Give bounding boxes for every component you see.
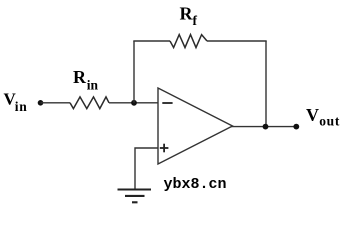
wire input lead	[41, 102, 71, 104]
node output junction	[263, 124, 269, 130]
svg-text:V: V	[306, 105, 319, 125]
svg-text:out: out	[319, 114, 340, 129]
wire Rf right lead	[207, 40, 267, 42]
node A junction	[131, 100, 137, 106]
wire feedback left vertical	[133, 41, 135, 103]
label Rin	[73, 67, 99, 92]
wire feedback right vertical	[265, 41, 267, 127]
op-amp inverting pin mark	[162, 102, 172, 104]
svg-text:in: in	[87, 77, 99, 92]
wire Rf left lead	[133, 40, 170, 42]
wire output	[231, 126, 296, 128]
resistor Rf	[170, 35, 207, 48]
op-amp U1	[158, 88, 233, 164]
label Vout	[306, 105, 340, 129]
ground	[118, 190, 152, 203]
wire non-inverting input	[135, 148, 158, 189]
label Rf	[180, 4, 198, 28]
svg-text:R: R	[180, 4, 194, 24]
op-amp non-inverting pin mark	[160, 144, 169, 153]
svg-text:f: f	[193, 13, 198, 28]
wire Rin to inverting input	[109, 102, 158, 104]
label Vin	[4, 90, 28, 114]
svg-text:R: R	[73, 67, 87, 87]
svg-text:ybx8.cn: ybx8.cn	[164, 176, 227, 193]
resistor Rin	[70, 97, 109, 109]
node Vout terminal	[293, 124, 299, 130]
svg-text:in: in	[15, 99, 28, 114]
node Vin terminal	[38, 100, 44, 106]
